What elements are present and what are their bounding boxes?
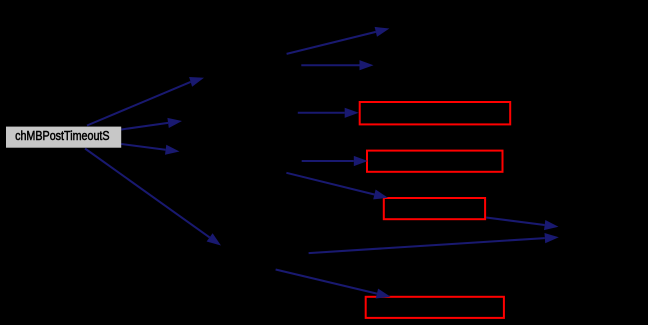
svg-text:chMBPostTimeoutS: chMBPostTimeoutS	[15, 128, 110, 143]
